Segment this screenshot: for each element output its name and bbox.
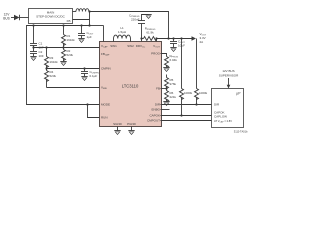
svg-text:976k: 976k xyxy=(170,82,177,86)
svg-text:6.04k: 6.04k xyxy=(170,58,178,62)
svg-text:10F: 10F xyxy=(39,54,44,58)
svg-text:1000k: 1000k xyxy=(199,91,208,95)
svg-text:RUN: RUN xyxy=(101,116,108,120)
svg-text:221k: 221k xyxy=(170,95,177,99)
svg-text:220nF: 220nF xyxy=(131,18,140,22)
svg-text:STEP-DOWN DC/DC: STEP-DOWN DC/DC xyxy=(36,15,65,19)
svg-text:ENBG: ENBG xyxy=(151,108,160,112)
svg-text:CAPLOW: CAPLOW xyxy=(214,115,227,119)
svg-text:FB: FB xyxy=(156,87,160,91)
svg-text:3110 TA01b: 3110 TA01b xyxy=(234,130,248,134)
svg-text:µP: µP xyxy=(236,92,241,96)
svg-text:1µF: 1µF xyxy=(87,35,92,39)
svg-text:BUS: BUS xyxy=(3,17,10,21)
svg-text:SGND: SGND xyxy=(113,122,123,126)
svg-text:CAPOK: CAPOK xyxy=(149,114,160,118)
svg-text:CMPOUT: CMPOUT xyxy=(147,119,160,123)
svg-text:523k: 523k xyxy=(67,53,74,57)
svg-text:LTC3110: LTC3110 xyxy=(122,84,139,89)
svg-text:DIR: DIR xyxy=(214,103,220,107)
svg-text:61.9k: 61.9k xyxy=(146,31,154,35)
svg-text:FB: FB xyxy=(67,19,71,23)
svg-text:2A: 2A xyxy=(200,40,204,44)
svg-text:1000k: 1000k xyxy=(184,91,193,95)
svg-text:SW1: SW1 xyxy=(110,44,117,48)
svg-text:CMPIN: CMPIN xyxy=(101,67,111,71)
svg-text:MODE: MODE xyxy=(101,103,110,107)
svg-text:PGND: PGND xyxy=(127,122,137,126)
svg-text:DIR: DIR xyxy=(155,103,161,107)
svg-text:SW2: SW2 xyxy=(127,44,134,48)
svg-text:AT VCAP = 2.8V: AT VCAP = 2.8V xyxy=(214,119,232,123)
svg-text:1.5µH: 1.5µH xyxy=(118,30,126,34)
svg-text:1910k: 1910k xyxy=(67,38,76,42)
svg-text:523k: 523k xyxy=(50,74,57,78)
svg-text:1910k: 1910k xyxy=(50,60,59,64)
svg-text:SUPERVISOR: SUPERVISOR xyxy=(219,73,239,77)
svg-text:PROG: PROG xyxy=(151,52,161,56)
svg-text:0.1µF: 0.1µF xyxy=(90,74,98,78)
